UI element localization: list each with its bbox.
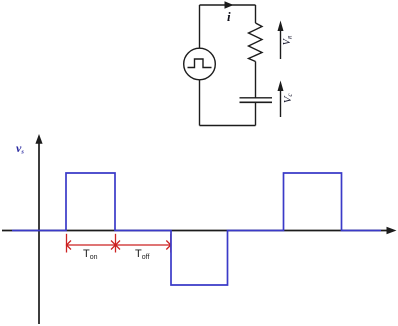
pulse source waveform symbol bbox=[188, 59, 212, 68]
resistor R bbox=[249, 23, 263, 62]
capacitor C bottom plate bbox=[240, 101, 273, 103]
waveform vs(t) bbox=[12, 173, 381, 285]
dimension arrow Ton bbox=[67, 241, 116, 250]
wire right upper bbox=[255, 5, 257, 23]
dimension tick at pulse start bbox=[66, 234, 68, 253]
voltage arrow Vc bbox=[278, 81, 284, 118]
wire left lower bbox=[199, 80, 201, 126]
wire top (source to resistor) bbox=[200, 4, 256, 6]
current arrow i bbox=[225, 1, 234, 9]
x axis bbox=[2, 230, 388, 232]
wire bottom bbox=[200, 125, 256, 127]
wire left upper bbox=[199, 5, 201, 48]
voltage arrow VR bbox=[278, 21, 284, 60]
capacitor C top plate bbox=[240, 97, 273, 99]
svg-text:i: i bbox=[227, 9, 231, 24]
y axis bbox=[38, 142, 40, 324]
dimension tick at Toff end bbox=[170, 234, 172, 253]
wire right middle (resistor to capacitor) bbox=[255, 62, 257, 99]
wire right lower bbox=[255, 102, 257, 125]
dimension tick at pulse end bbox=[115, 234, 117, 253]
pulse source U1 circle bbox=[184, 48, 216, 80]
dimension arrow Toff bbox=[116, 241, 171, 250]
